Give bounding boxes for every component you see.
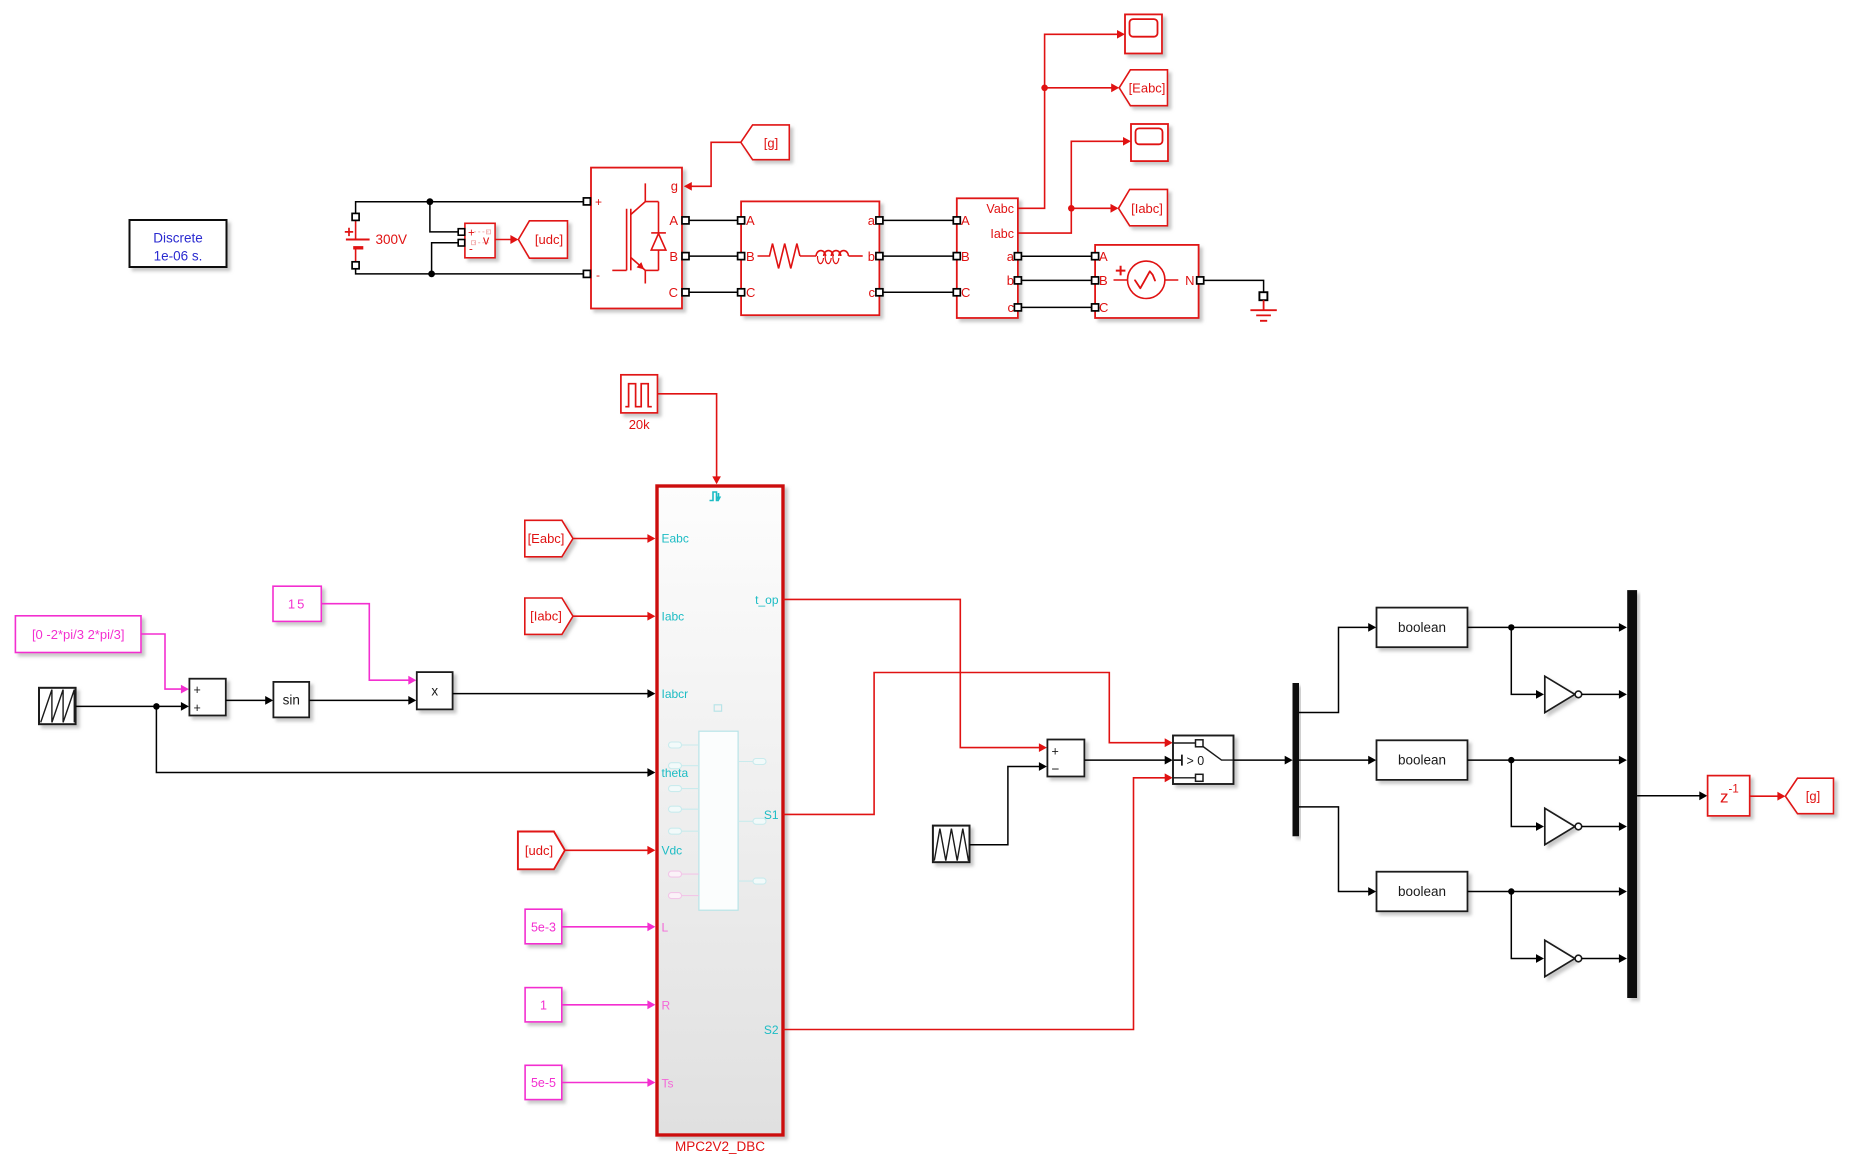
svg-text:[0 -2*pi/3 2*pi/3]: [0 -2*pi/3 2*pi/3]: [32, 627, 125, 642]
svg-text:1e-06 s.: 1e-06 s.: [154, 249, 203, 264]
DC voltage source 300V: [345, 213, 407, 268]
wire From Iabc to MPC: [573, 615, 649, 617]
wire not3 to mux: [1582, 958, 1621, 960]
AC source icon: [1114, 261, 1179, 298]
svg-text:[Iabc]: [Iabc]: [1131, 201, 1163, 216]
svg-text:+: +: [468, 228, 475, 240]
trigger icon: [710, 492, 719, 501]
svg-text:[g]: [g]: [1806, 789, 1820, 804]
node boolean3 branch: [1508, 888, 1514, 894]
svg-text:Ts: Ts: [662, 1077, 674, 1091]
measurement port squares: [953, 217, 960, 224]
svg-text:20k: 20k: [629, 417, 650, 432]
svg-text:5e-5: 5e-5: [531, 1076, 556, 1090]
RL port squares: [738, 217, 745, 224]
svg-text:[Eabc]: [Eabc]: [1129, 80, 1166, 95]
unit delay z-1: [1708, 776, 1750, 816]
MPC port labels: [662, 532, 779, 1091]
svg-text:C: C: [961, 285, 970, 300]
svg-text:v: v: [483, 234, 490, 248]
svg-text:boolean: boolean: [1398, 620, 1446, 635]
scope2: [1131, 124, 1168, 161]
svg-text:MPC2V2_DBC: MPC2V2_DBC: [675, 1139, 765, 1154]
svg-text:Eabc: Eabc: [662, 532, 689, 546]
constant 5e-3: [525, 909, 562, 944]
transistor IGBT with diode icon: [612, 183, 666, 283]
wire RL b to measurement B: [883, 255, 953, 257]
wire sum to sin: [226, 699, 267, 701]
wire RL c to measurement C: [883, 291, 953, 293]
svg-text:300V: 300V: [376, 232, 408, 247]
wire branch to Goto Iabc: [1071, 207, 1112, 209]
wire measurement c to source C: [1021, 306, 1091, 308]
node Vabc branch: [1041, 85, 1048, 92]
Goto tag [g] bottom: [1785, 778, 1833, 814]
svg-text:> 0: > 0: [1187, 754, 1205, 768]
svg-text:[Iabc]: [Iabc]: [530, 609, 562, 624]
svg-text:-: -: [596, 268, 600, 282]
svg-text:+: +: [595, 195, 602, 209]
node bottom rail junction: [428, 271, 435, 278]
data type conversion boolean1: [1377, 608, 1468, 648]
svg-text:g: g: [671, 179, 678, 194]
IGBT inverter bridge block: [591, 168, 682, 309]
wire boolean3 to mux: [1468, 891, 1621, 893]
wire mux to unit delay: [1637, 795, 1701, 797]
svg-text:c: c: [869, 285, 876, 300]
source port squares: [1092, 253, 1099, 260]
svg-text:t_op: t_op: [755, 593, 779, 607]
wire battery+ to inverter+ top rail: [356, 202, 584, 214]
svg-text:1: 1: [540, 999, 547, 1013]
wire rail to voltmeter -: [432, 243, 459, 274]
svg-text:B: B: [746, 249, 755, 264]
svg-text:theta: theta: [662, 766, 689, 780]
svg-text:[udc]: [udc]: [525, 843, 553, 858]
constant 15: [273, 586, 321, 621]
wire source N to ground: [1204, 280, 1264, 292]
svg-text:A: A: [746, 213, 755, 228]
svg-text:[udc]: [udc]: [535, 232, 563, 247]
svg-text:sin: sin: [283, 693, 300, 708]
From tag [Iabc]: [525, 598, 573, 634]
svg-text:b: b: [1007, 273, 1014, 288]
wire sin to product: [309, 699, 410, 701]
svg-text:Iabc: Iabc: [990, 227, 1014, 241]
svg-text:A: A: [669, 213, 678, 228]
svg-text:B: B: [961, 249, 970, 264]
resistor inductor icon: [758, 244, 863, 269]
From tag [Eabc]: [525, 520, 573, 557]
svg-text:5e-3: 5e-3: [531, 920, 556, 934]
svg-text:R: R: [662, 998, 671, 1012]
constant 1: [525, 988, 562, 1022]
wire product to MPC Iabcr: [453, 693, 649, 695]
svg-text:L: L: [662, 921, 669, 935]
constant [0 -2*pi/3 2*pi/3]: [15, 616, 141, 653]
wire 5e-5 to MPC Ts: [562, 1082, 649, 1084]
wire From Eabc to MPC: [573, 538, 649, 540]
wire unit delay to Goto g: [1750, 795, 1779, 797]
wire pulse to MPC trigger: [658, 394, 717, 478]
svg-text:-1: -1: [1729, 784, 1739, 796]
wire inverter B to RL B: [689, 255, 738, 257]
svg-text:C: C: [746, 285, 755, 300]
subsystem preview inner rect: [669, 705, 767, 910]
svg-text:Iabc: Iabc: [662, 610, 685, 624]
svg-text:a: a: [868, 213, 876, 228]
wire phase constant to sum: [141, 634, 183, 689]
subsystem MPC2V2_DBC: [657, 486, 783, 1154]
wire branch to not2: [1511, 760, 1537, 826]
svg-text:S2: S2: [764, 1023, 779, 1037]
wire battery- to inverter- bottom rail: [356, 269, 584, 274]
data type conversion boolean2: [1377, 740, 1468, 780]
scope1: [1125, 14, 1162, 53]
mux: [1627, 590, 1637, 998]
trigonometric function sin: [273, 682, 309, 718]
svg-text:-: -: [469, 244, 473, 256]
svg-text:c: c: [1008, 300, 1015, 315]
wire branch to MPC theta: [156, 706, 649, 772]
logical operator NOT3: [1545, 940, 1582, 976]
constant 5e-5: [525, 1065, 562, 1099]
powergui block Discrete 1e-06 s.: [130, 220, 227, 267]
wire RL a to measurement A: [883, 219, 953, 221]
svg-text:N: N: [1185, 273, 1194, 288]
wire boolean1 to mux: [1468, 626, 1621, 628]
svg-text:−: −: [1052, 762, 1060, 777]
svg-text:C: C: [1099, 300, 1108, 315]
wire branch to not1: [1511, 627, 1537, 694]
wire Vabc to scope1: [1018, 34, 1119, 208]
repeating sequence sawtooth source: [39, 688, 76, 724]
sum block ++: [189, 679, 225, 716]
wire sum2 to switch control: [1084, 759, 1166, 761]
svg-text:A: A: [1099, 249, 1108, 264]
wire sawtooth to sum: [76, 705, 183, 707]
svg-text:B: B: [669, 249, 678, 264]
logical operator NOT2: [1545, 808, 1582, 844]
svg-text:[g]: [g]: [764, 136, 778, 151]
svg-text:B: B: [1099, 273, 1108, 288]
svg-text:Discrete: Discrete: [153, 231, 203, 246]
wire MPC S2 to switch input3: [783, 778, 1167, 1030]
product block x: [417, 672, 453, 709]
Goto tag [Iabc]: [1119, 189, 1168, 225]
logical operator NOT1: [1545, 676, 1582, 712]
ground: [1250, 292, 1276, 321]
three-phase source block: [1095, 245, 1199, 318]
wire not1 to mux: [1582, 693, 1621, 695]
wire rail to voltmeter +: [430, 202, 458, 232]
sum block +-: [1047, 740, 1084, 777]
svg-text:boolean: boolean: [1398, 884, 1446, 899]
voltage measurement block v: [458, 223, 495, 257]
three-phase V-I measurement block: [957, 198, 1018, 318]
wire MPC S1 to switch input1: [783, 673, 1167, 815]
svg-text:+: +: [194, 701, 201, 715]
svg-text:C: C: [669, 285, 678, 300]
wire demux out2 to boolean2: [1299, 759, 1370, 761]
wire From udc to MPC Vdc: [565, 849, 649, 851]
wire Iabc to scope2: [1018, 141, 1125, 233]
node top rail junction: [427, 198, 434, 205]
From tag [g] top: [741, 125, 790, 160]
wire triangle source to sum2: [970, 767, 1042, 845]
wire demux out3 to boolean3: [1299, 807, 1370, 892]
node Iabc branch: [1068, 205, 1075, 212]
wire branch to not3: [1511, 892, 1537, 959]
inverter port squares: [583, 198, 590, 205]
svg-text:z: z: [1720, 788, 1729, 807]
wire branch to Goto Eabc: [1045, 87, 1113, 89]
node boolean2 branch: [1508, 757, 1514, 763]
data type conversion boolean3: [1377, 872, 1468, 912]
svg-text:[Eabc]: [Eabc]: [528, 531, 565, 546]
svg-text:x: x: [431, 684, 438, 699]
wire demux out1 to boolean1: [1299, 627, 1370, 712]
svg-text:Vabc: Vabc: [986, 202, 1014, 216]
Goto tag [udc]: [518, 221, 567, 258]
svg-text:S1: S1: [764, 808, 779, 822]
svg-text:+: +: [1052, 744, 1059, 758]
wire inverter A to RL A: [689, 219, 738, 221]
demux: [1293, 683, 1300, 836]
wire not2 to mux: [1582, 826, 1621, 828]
wire 1 to MPC R: [562, 1004, 649, 1006]
From tag [udc]: [518, 832, 565, 870]
wire 15 to product: [321, 604, 410, 681]
wire measurement b to source B: [1021, 279, 1091, 281]
svg-text:Iabcr: Iabcr: [662, 687, 689, 701]
three-phase series RL branch block: [741, 201, 879, 315]
node boolean1 branch: [1508, 624, 1514, 630]
wire voltmeter to Goto udc: [495, 239, 511, 241]
node theta branch: [153, 703, 160, 710]
wire switch to demux: [1234, 759, 1287, 761]
switch block > 0: [1173, 736, 1234, 785]
svg-text:b: b: [868, 249, 875, 264]
svg-text:Vdc: Vdc: [662, 844, 683, 858]
wire boolean2 to mux: [1468, 759, 1621, 761]
Goto tag [Eabc]: [1119, 70, 1167, 106]
wire From g to inverter g port: [690, 142, 741, 186]
svg-text:boolean: boolean: [1398, 753, 1446, 768]
svg-text:15: 15: [288, 597, 306, 612]
repeating sequence triangle source: [933, 826, 970, 863]
wire 5e-3 to MPC L: [562, 926, 649, 928]
wire measurement a to source A: [1021, 255, 1091, 257]
pulse generator 20k: [621, 375, 658, 432]
svg-text:+: +: [194, 683, 201, 697]
wire MPC t_op to sum2: [783, 599, 1041, 747]
svg-text:A: A: [961, 213, 970, 228]
wire inverter C to RL C: [689, 291, 738, 293]
